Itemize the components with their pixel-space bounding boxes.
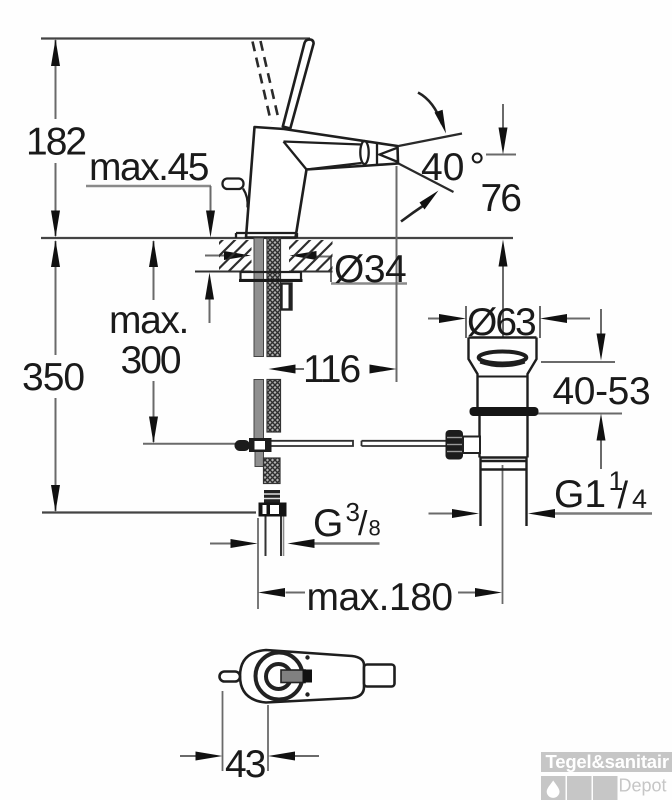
svg-text:8: 8	[369, 516, 381, 541]
svg-text:max.45: max.45	[89, 146, 209, 189]
svg-text:4: 4	[632, 484, 647, 514]
svg-text:Depot: Depot	[619, 776, 667, 796]
svg-text:Tegel&sanitair: Tegel&sanitair	[546, 751, 669, 772]
svg-text:Ø63: Ø63	[467, 301, 535, 344]
svg-text:43: 43	[225, 743, 265, 786]
svg-text:350: 350	[22, 356, 84, 399]
svg-text:76: 76	[481, 177, 521, 220]
svg-text:/: /	[618, 475, 629, 517]
svg-text:116: 116	[303, 348, 359, 391]
svg-text:300: 300	[121, 339, 181, 382]
svg-text:182: 182	[26, 121, 85, 164]
svg-text:40°: 40°	[421, 146, 485, 189]
svg-text:40-53: 40-53	[553, 370, 651, 413]
svg-text:/: /	[358, 505, 368, 543]
svg-text:G: G	[313, 502, 343, 545]
svg-text:G1: G1	[554, 473, 606, 516]
svg-text:Ø34: Ø34	[334, 248, 406, 291]
svg-text:max.180: max.180	[307, 576, 453, 619]
svg-text:max.: max.	[109, 299, 188, 342]
